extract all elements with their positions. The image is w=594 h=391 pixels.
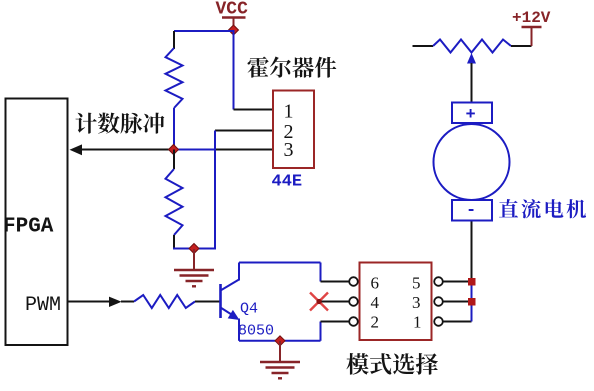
- motor M1 body circle: [434, 124, 510, 200]
- wire pin3 to motor net: [443, 301, 472, 303]
- wire R3 to Q4 base: [195, 301, 221, 303]
- svg-text:6: 6: [371, 274, 380, 293]
- svg-text:+: +: [466, 106, 476, 125]
- svg-text:44E: 44E: [272, 173, 303, 192]
- potentiometer R5 body: [433, 40, 511, 53]
- svg-text:8050: 8050: [238, 323, 274, 340]
- wire FPGA PWM out: [68, 301, 111, 303]
- junction at ground tap: [189, 244, 199, 254]
- connector pin circle right: [434, 277, 443, 286]
- svg-text:PWM: PWM: [25, 294, 61, 317]
- wiper stem to motor +: [471, 63, 473, 103]
- label 直流电机 (DC motor): [499, 199, 586, 218]
- wire pin5 to motor net: [443, 281, 472, 283]
- resistor R3 (base): [134, 295, 195, 308]
- label 模式选择 (mode select): [346, 353, 437, 375]
- wire to hall pin 1: [234, 109, 274, 111]
- Q4 emitter arrowhead: [228, 310, 240, 320]
- mode-select connector J1 box: [360, 263, 432, 341]
- stub to connector pin 4: [318, 301, 350, 303]
- motor + terminal box: [452, 103, 492, 124]
- svg-text:Q4: Q4: [240, 301, 258, 318]
- connector pin circle right: [434, 297, 443, 306]
- arrowhead into FPGA: [70, 144, 83, 155]
- wiper arrowhead: [467, 53, 476, 64]
- resistor R2 top lead: [173, 150, 175, 170]
- wire pin2 vertical down: [214, 131, 216, 250]
- stub to connector pin 2: [321, 321, 351, 323]
- wire junction to pin2 vertical: [174, 149, 216, 151]
- R2 bottom lead: [173, 235, 175, 250]
- wire VCC down to hall pin1: [233, 30, 235, 110]
- junction square pin3: [468, 298, 476, 306]
- ground symbol Q4: [279, 341, 281, 362]
- svg-text:+12V: +12V: [512, 9, 551, 27]
- wire arrow to R3: [121, 301, 134, 303]
- motor - terminal box: [452, 200, 492, 221]
- junction at VCC node: [229, 25, 239, 35]
- arrowhead PWM: [109, 297, 122, 307]
- hall sensor U1 box: [273, 91, 314, 169]
- svg-text:-: -: [466, 202, 476, 221]
- wire down to pin6 row: [320, 263, 322, 282]
- wire Q4 emitter bottom run: [239, 340, 321, 342]
- svg-text:1: 1: [413, 313, 422, 332]
- label 霍尔器件 (hall device): [248, 57, 337, 78]
- wire: hall pin3 / count-pulse net to FPGA: [78, 149, 273, 151]
- wire hall pin2: [215, 130, 273, 132]
- connector pin circle right: [434, 317, 443, 326]
- connector pin circle left: [349, 317, 358, 326]
- junction square pin5: [468, 278, 476, 286]
- motor negative lead vertical: [471, 221, 473, 282]
- svg-text:3: 3: [284, 139, 294, 161]
- svg-text:2: 2: [371, 313, 380, 332]
- junction dot at X: [316, 299, 321, 304]
- svg-text:5: 5: [412, 274, 421, 293]
- potentiometer R5 left lead: [413, 45, 434, 47]
- resistor R2: [166, 169, 183, 235]
- bottom wire R2 to pin2 line: [173, 248, 215, 250]
- stub to connector pin 6: [321, 281, 351, 283]
- R1 bottom lead: [173, 108, 175, 150]
- transistor Q4 8050: [221, 263, 240, 341]
- resistor R1 top lead: [173, 31, 175, 49]
- junction R1/R2/pin3 node: [169, 145, 179, 155]
- net label 计数脉冲 (count pulse): [75, 113, 164, 134]
- connector pin circle left: [349, 297, 358, 306]
- no-connect X mark: [310, 293, 328, 311]
- svg-text:3: 3: [412, 293, 421, 312]
- wire up to pin2 row: [320, 322, 322, 341]
- +12V power symbol: [531, 27, 533, 46]
- junction emitter/ground: [275, 336, 285, 346]
- wire VCC to R1 top: [174, 30, 234, 32]
- wire Q4 collector top run: [239, 262, 321, 264]
- connector pin circle left: [349, 277, 358, 286]
- wire pin1 to motor net: [443, 321, 472, 323]
- ground symbol left: [193, 249, 195, 270]
- R5 right lead: [511, 45, 532, 47]
- svg-text:FPGA: FPGA: [3, 216, 54, 239]
- net segment between junctions: [471, 282, 473, 322]
- svg-text:4: 4: [371, 293, 380, 312]
- resistor R1 (pull-up): [166, 48, 183, 108]
- svg-text:1: 1: [284, 101, 294, 123]
- FPGA block outline: [6, 99, 68, 346]
